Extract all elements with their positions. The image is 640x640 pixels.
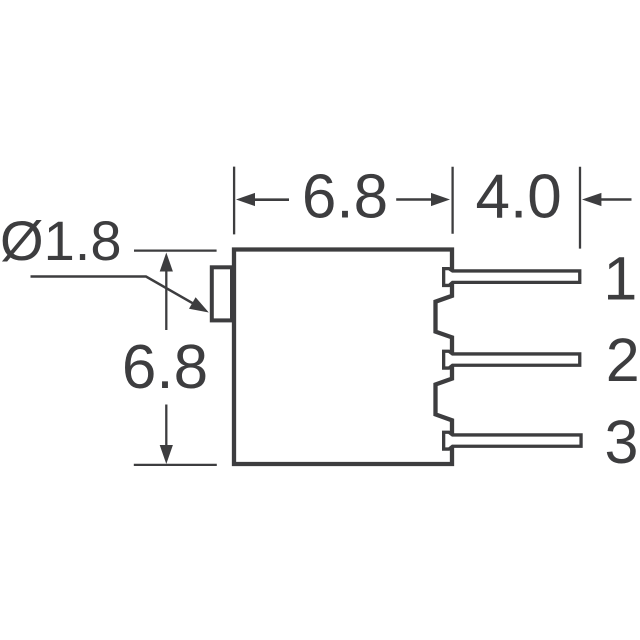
svg-text:4.0: 4.0 [475,163,561,232]
pin 3 (with flared cap at body) [444,432,581,449]
leader line for diameter 1.8 [31,277,209,313]
dim 6.8 left down arrow [160,405,173,465]
extension line right (top dim) [579,167,581,249]
dim 6.8 left up arrow [160,253,173,331]
svg-text:6.8: 6.8 [302,163,388,232]
pin 2 (with flared cap at body) [444,351,580,368]
dim 6.8 top right arrow [396,193,450,206]
svg-text:6.8: 6.8 [122,333,208,402]
pin 1 (with flared cap at body) [444,269,580,286]
adjustment tab (left side of body) [212,267,232,320]
svg-text:3: 3 [605,408,639,476]
svg-text:2: 2 [606,326,640,394]
svg-text:Ø1.8: Ø1.8 [0,209,122,272]
extension line middle (top dim) [451,167,453,234]
svg-text:1: 1 [603,245,637,313]
extension line bottom (left dim) [134,464,217,466]
dim 4.0 right arrow [582,193,632,206]
extension line top (left dim) [134,249,217,251]
body outline (trimmer side view with notched right edge) [234,250,452,465]
extension line left (top dim) [233,167,235,235]
dim 6.8 top left arrow [236,193,289,206]
